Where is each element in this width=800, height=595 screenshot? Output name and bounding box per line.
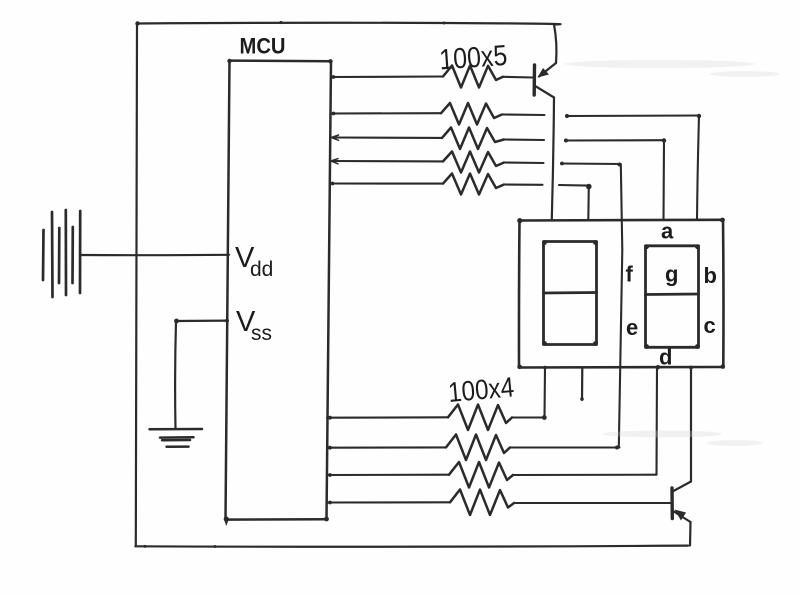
smudge marks [565,60,780,446]
wire dangling stub below display [580,368,584,401]
wire RN1-1 to Q1 base [503,76,533,79]
resistor RN2-4 [450,490,514,516]
transistor Q1 collector to display [536,87,554,220]
wire RN1-3 to display (after crossing gap) [564,138,666,220]
transistor Q2 [670,488,674,519]
transistor Q2 collector to display [673,368,692,492]
label Vdd [235,242,273,281]
wire RN1-5 to display (after crossing gap) [559,184,592,220]
7-segment display DS1 box [517,218,725,370]
wire RN2-1 to display [512,368,547,420]
resistor RN2-3 pin wire [327,473,449,477]
DS1 right digit [644,244,700,348]
transistor Q1 emitter from top rail [538,25,557,78]
resistor RN1-5 [443,174,504,195]
resistor RN2-2 [446,435,510,461]
resistor RN1-4 [443,152,504,173]
svg-text:a: a [661,219,674,244]
resistor RN1-2 pin wire [331,112,441,116]
wire RN1-4 through display to RN2-2 [560,162,622,448]
svg-text:100x4: 100x4 [447,371,515,408]
battery B1 [43,210,80,297]
resistor RN1-3 pin wire [331,135,442,140]
resistor RN1-5 pin wire [330,182,443,186]
wire RN1-4 tail [504,161,544,164]
resistor RN2-1 pin wire [327,416,448,420]
ground [150,429,203,447]
resistor RN1-4 pin wire [331,159,444,164]
svg-text:b: b [704,263,717,288]
transistor Q2 emitter to bottom rail [673,510,691,546]
svg-text:g: g [665,262,678,287]
wire RN2-2 to vertical [510,446,620,450]
resistor RN2-3 [449,462,513,488]
svg-text:dd: dd [250,258,273,281]
resistor RN2-4 pin wire [327,501,450,505]
resistor RN1-1 [443,66,503,88]
svg-text:c: c [704,313,716,338]
DS1 left digit [542,240,598,346]
svg-text:f: f [626,262,634,287]
wire bottom supply rail [135,545,688,548]
wire RN2-3 to display [513,368,657,475]
wire RN1-2 tail [502,113,545,116]
wire left supply rail [136,24,137,547]
svg-text:e: e [626,315,638,340]
wire battery to Vdd pin [81,254,229,257]
MCU U1 [224,59,333,526]
wire top supply rail [135,21,560,26]
resistor RN1-2 [441,103,502,125]
wire Vss to ground [174,319,229,429]
wire RN1-3 tail [504,138,544,141]
wire RN1-5 tail [504,183,543,185]
resistor RN1-1 pin wire [331,75,443,79]
svg-text:MCU: MCU [240,34,286,59]
transistor Q1 [533,65,537,95]
wire RN2-4 to Q2 base [514,502,671,504]
svg-text:d: d [659,345,672,370]
label Vss [236,306,272,345]
svg-text:ss: ss [251,322,272,345]
resistor RN2-1 [448,405,512,431]
resistor RN1-3 [442,128,504,150]
resistor RN2-2 pin wire [327,446,446,450]
wire RN1-2 to display (after crossing gap) [565,114,701,220]
